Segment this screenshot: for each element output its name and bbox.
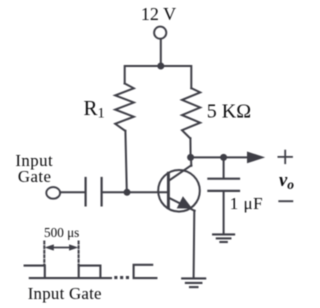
wire: R1 bottom lead <box>125 131 126 192</box>
wire: emitter lead <box>193 211 196 278</box>
capacitor C2 bottom plate <box>208 190 239 192</box>
wire: 12V lead <box>160 39 162 66</box>
svg-text:500 μs: 500 μs <box>44 225 79 240</box>
junction: supply rail <box>157 63 164 70</box>
svg-text:Gate: Gate <box>18 167 51 186</box>
transistor Q1 collector stroke <box>168 165 191 181</box>
label + <box>278 151 292 164</box>
resistor R2 5KΩ <box>182 88 200 138</box>
label minus <box>279 200 292 202</box>
wire: output line <box>191 156 249 158</box>
capacitor C1 right plate <box>100 178 102 205</box>
junction: collector node <box>187 154 194 161</box>
wire: cap top lead <box>223 157 225 177</box>
wire: cap bottom lead <box>223 192 225 233</box>
terminal: input gate <box>46 187 60 199</box>
terminal: 12V supply <box>154 27 166 39</box>
ground: emitter <box>182 278 205 287</box>
svg-text:vo: vo <box>279 171 294 192</box>
waveform: left partial pulse top <box>25 266 45 278</box>
dimension arrowhead left <box>45 244 54 250</box>
waveform: right partial pulse <box>134 265 157 278</box>
ellipsis dots <box>114 276 129 279</box>
wire: supply rail with leads to both resistors <box>125 66 192 88</box>
wire: collector lead <box>190 157 192 165</box>
dimension line 500us <box>51 247 71 249</box>
svg-text:5 KΩ: 5 KΩ <box>207 100 251 122</box>
transistor Q1 base bar <box>167 173 170 207</box>
capacitor C1 left plate <box>84 178 86 205</box>
resistor R1 <box>115 84 134 131</box>
transistor Q1 emitter arrow <box>177 196 193 208</box>
svg-text:R1: R1 <box>84 96 105 122</box>
svg-text:12 V: 12 V <box>141 4 176 24</box>
transistor Q1 emitter stroke <box>168 198 194 211</box>
capacitor C2 top plate <box>208 178 239 180</box>
svg-text:Input Gate: Input Gate <box>28 284 102 303</box>
arrowhead: output <box>247 152 265 164</box>
ground: output cap <box>213 234 234 242</box>
waveform: baseline <box>30 277 111 279</box>
junction: capacitor tap <box>220 154 227 161</box>
dotted extension line right <box>78 242 80 266</box>
wire: input to coupling cap <box>60 191 84 193</box>
transistor Q1 circle <box>158 170 200 212</box>
wire: 5KΩ bottom lead <box>189 138 191 157</box>
dimension arrowhead right <box>69 244 78 250</box>
wire: cap to base <box>103 191 168 193</box>
junction: base node <box>124 189 131 196</box>
dotted extension line left <box>43 242 45 266</box>
svg-text:1 μF: 1 μF <box>230 194 263 213</box>
waveform: pulse 2 <box>79 266 101 278</box>
